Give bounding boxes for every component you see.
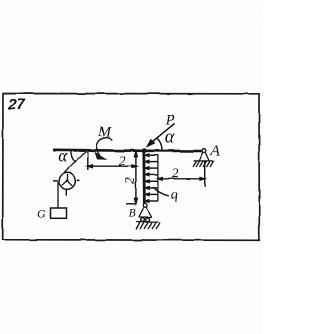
distributed load arrows	[145, 154, 158, 202]
angle alpha arc left	[71, 150, 76, 162]
support B	[136, 203, 160, 229]
svg-text:P: P	[165, 113, 175, 129]
pulley	[53, 173, 80, 196]
dimension 2 horizontal right	[158, 162, 205, 187]
column	[142, 151, 145, 204]
junction node at top of column	[142, 148, 147, 153]
svg-text:B: B	[129, 207, 136, 219]
beam left end blob	[53, 148, 56, 151]
weight G box	[51, 208, 67, 218]
dimension 2 horizontal left	[88, 152, 137, 171]
force P arrow	[150, 124, 175, 145]
rope from beam to pulley	[61, 150, 88, 176]
q leader line	[152, 187, 169, 196]
angle alpha arc at P	[157, 138, 163, 151]
svg-text:q: q	[171, 188, 178, 203]
svg-text:α: α	[58, 145, 68, 165]
support A	[193, 149, 216, 167]
svg-text:2: 2	[172, 165, 179, 180]
svg-text:2: 2	[119, 153, 126, 168]
svg-text:A: A	[210, 143, 221, 159]
svg-text:2: 2	[122, 177, 137, 184]
rope from pulley to weight	[57, 182, 59, 209]
svg-text:27: 27	[7, 96, 25, 113]
moment M arc arrow	[97, 138, 113, 155]
beam	[54, 150, 205, 151]
svg-text:α: α	[165, 127, 176, 147]
distributed load q right line	[157, 155, 159, 201]
dimension 2 vertical	[126, 152, 137, 204]
svg-text:G: G	[37, 207, 46, 221]
